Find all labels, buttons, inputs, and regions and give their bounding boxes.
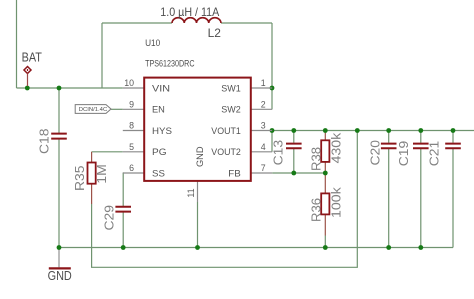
svg-text:C18: C18 — [36, 129, 51, 155]
junction IC GND bottom — [195, 245, 200, 250]
svg-text:11: 11 — [186, 188, 196, 197]
wire FB line — [272, 172, 325, 174]
svg-text:SS: SS — [152, 168, 165, 178]
svg-text:SW1: SW1 — [221, 83, 241, 93]
svg-text:R38: R38 — [308, 147, 323, 171]
svg-text:1M: 1M — [94, 164, 109, 184]
pin 6 SS stub — [123, 172, 144, 174]
wire C18 branch upper — [58, 88, 60, 133]
junction pin4 riser on VOUT rail — [270, 128, 275, 133]
capacitor C13 — [286, 144, 302, 149]
wire SS to C29 — [122, 173, 124, 206]
svg-text:FB: FB — [228, 168, 241, 178]
pin 11 GND stub — [197, 181, 199, 202]
wire L2 to SW riser — [221, 22, 272, 24]
svg-text:100k: 100k — [328, 187, 343, 218]
svg-text:C29: C29 — [102, 205, 117, 231]
junction C13 on FB — [291, 171, 296, 176]
pin 2 SW2 stub — [251, 108, 272, 110]
wire FB to R36 — [324, 173, 326, 194]
wire IC GND to rail — [197, 202, 199, 248]
pin 9 EN stub — [123, 108, 144, 110]
pin 1 SW1 stub — [251, 87, 272, 89]
svg-text:HYS: HYS — [152, 126, 172, 136]
wire pin4 riser — [271, 131, 273, 152]
svg-text:3: 3 — [261, 121, 266, 131]
ground symbol — [49, 267, 71, 269]
wire R38 to FB — [324, 162, 326, 173]
resistor R36 — [321, 193, 329, 214]
pin 4 VOUT2 stub — [251, 151, 272, 153]
supply BAT symbol — [24, 67, 31, 87]
capacitor C21 — [445, 144, 461, 149]
capacitor C18 — [51, 134, 67, 139]
wire PG to R35 — [92, 151, 123, 153]
capacitor C29 — [115, 207, 131, 212]
svg-text:R36: R36 — [308, 198, 323, 222]
svg-text:10: 10 — [124, 78, 134, 88]
junction SW1 — [270, 86, 275, 91]
junction C18 top — [57, 86, 62, 91]
svg-text:6: 6 — [129, 163, 134, 173]
junction R36 bottom — [323, 245, 328, 250]
wire SW riser — [271, 23, 273, 109]
svg-text:8: 8 — [129, 121, 134, 131]
svg-text:5: 5 — [129, 142, 134, 152]
net flag DCIN/1.4C — [75, 105, 111, 114]
wire C29 bottom — [122, 212, 124, 247]
wire R38 top — [324, 131, 326, 141]
junction C20 top — [386, 128, 391, 133]
wire BAT rail — [17, 87, 123, 89]
resistor R38 — [321, 140, 329, 162]
svg-text:R35: R35 — [72, 166, 87, 192]
wire GND rail bottom — [59, 247, 453, 249]
junction C19 top — [418, 128, 423, 133]
junction R35 riser on VOUT rail — [355, 128, 360, 133]
wire C19 bottom — [420, 149, 422, 248]
pin 10 VIN stub — [123, 87, 144, 89]
wire EN to flag — [111, 108, 123, 110]
wire R35 top lead — [91, 152, 93, 163]
svg-text:C21: C21 — [427, 141, 442, 167]
wire C19 top — [420, 131, 422, 143]
svg-text:9: 9 — [129, 99, 134, 109]
svg-text:1.0 µH / 11A: 1.0 µH / 11A — [160, 5, 219, 19]
svg-text:L2: L2 — [208, 26, 221, 40]
svg-text:DCIN/1.4C: DCIN/1.4C — [79, 107, 107, 113]
junction GND sym — [57, 245, 62, 250]
wire R36 bottom — [324, 214, 326, 235]
wire VOUT rail — [272, 130, 474, 132]
wire riser to inductor — [101, 23, 103, 88]
wire C13 bottom — [293, 149, 295, 173]
wire top to L2 — [102, 22, 172, 24]
junction R38 R36 FB node — [323, 171, 328, 176]
pin 5 PG stub — [123, 151, 144, 153]
junction C13 top — [291, 128, 296, 133]
wire C18 branch lower — [58, 139, 60, 248]
svg-text:2: 2 — [261, 99, 266, 109]
junction C29 bottom — [121, 245, 126, 250]
svg-text:VOUT1: VOUT1 — [211, 126, 241, 136]
inductor L2 — [172, 18, 221, 23]
wire C21 top — [452, 131, 454, 143]
svg-text:EN: EN — [152, 105, 165, 115]
svg-text:BAT: BAT — [22, 51, 43, 65]
pin 3 VOUT1 stub — [251, 130, 272, 132]
wire C20 bottom — [388, 149, 390, 248]
wire R36 bottom net — [324, 236, 326, 248]
capacitor C19 — [413, 144, 429, 149]
svg-text:C19: C19 — [396, 141, 411, 167]
capacitor C20 — [381, 144, 397, 149]
svg-text:4: 4 — [261, 142, 266, 152]
pin 7 FB stub — [251, 172, 272, 174]
wire C20 top — [388, 131, 390, 143]
svg-text:VIN: VIN — [152, 83, 170, 93]
svg-text:SW2: SW2 — [221, 105, 241, 115]
svg-text:U10: U10 — [145, 38, 160, 48]
svg-text:PG: PG — [152, 147, 167, 157]
wire C21 bottom — [452, 149, 454, 248]
wire C13 top — [293, 131, 295, 143]
junction R38 top — [323, 128, 328, 133]
svg-text:1: 1 — [261, 78, 266, 88]
R35 bottom lead — [91, 184, 93, 204]
junction BAT pin — [25, 86, 30, 91]
junction C21 top — [451, 128, 456, 133]
pin 8 HYS stub — [123, 130, 144, 132]
svg-text:430k: 430k — [328, 132, 343, 163]
wire BAT net left vertical — [16, 0, 18, 88]
IC U10 TPS61230DRC body — [144, 78, 251, 181]
svg-text:GND: GND — [195, 146, 205, 167]
wire GND stub — [58, 248, 60, 268]
svg-text:VOUT2: VOUT2 — [211, 147, 241, 157]
resistor R35 — [88, 163, 96, 184]
svg-text:7: 7 — [261, 163, 266, 173]
svg-text:TPS61230DRC: TPS61230DRC — [145, 59, 195, 69]
svg-text:C13: C13 — [271, 140, 286, 166]
svg-text:C20: C20 — [368, 140, 383, 166]
svg-text:GND: GND — [48, 269, 72, 283]
wire R35 bottom to VOUT — [92, 131, 358, 268]
junction C19 bottom — [418, 245, 423, 250]
junction C20 bottom — [386, 245, 391, 250]
